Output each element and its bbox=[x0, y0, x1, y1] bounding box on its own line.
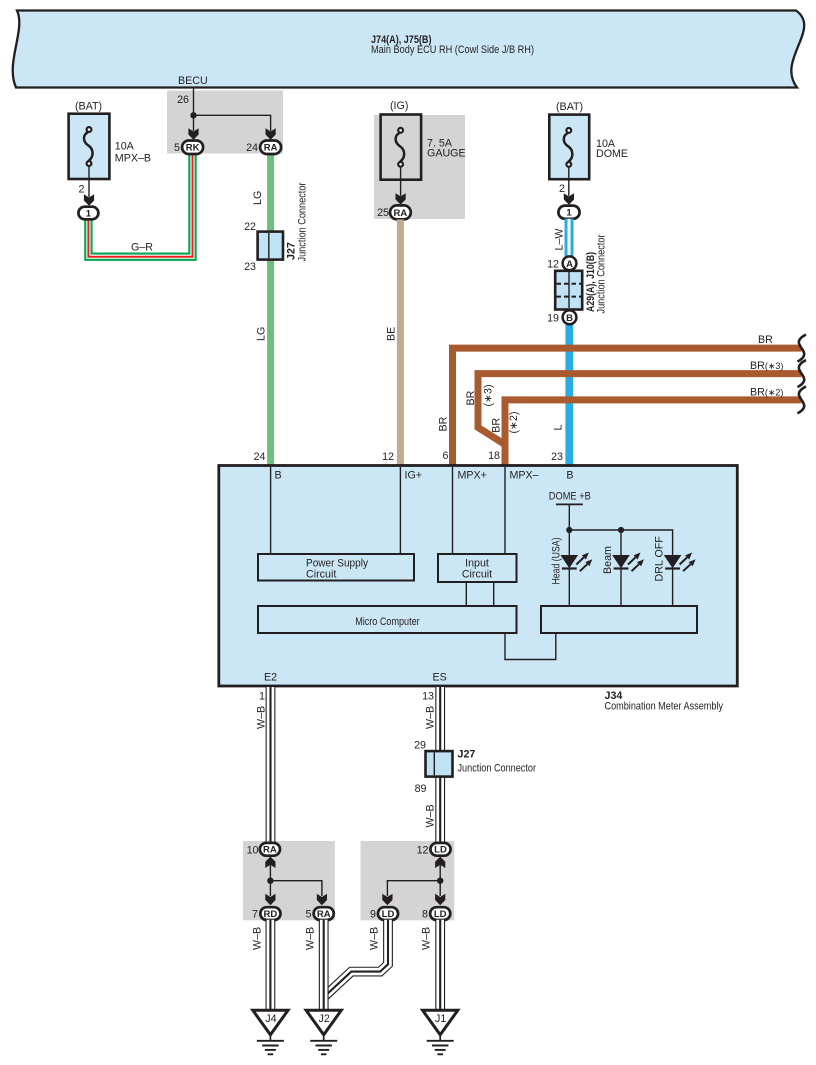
svg-text:DOME +B: DOME +B bbox=[549, 491, 591, 503]
svg-text:W–B: W–B bbox=[425, 804, 437, 827]
svg-text:W–B: W–B bbox=[425, 706, 437, 729]
svg-text:1: 1 bbox=[566, 208, 572, 219]
svg-text:J4: J4 bbox=[265, 1013, 276, 1025]
svg-text:BR: BR bbox=[438, 416, 450, 431]
svg-text:13: 13 bbox=[422, 691, 434, 703]
svg-text:5: 5 bbox=[174, 142, 180, 154]
svg-text:12: 12 bbox=[382, 451, 394, 463]
svg-text:2: 2 bbox=[559, 183, 565, 195]
svg-text:G–R: G–R bbox=[131, 242, 153, 254]
svg-text:Junction Connector: Junction Connector bbox=[458, 763, 537, 775]
svg-text:BR(∗3): BR(∗3) bbox=[750, 360, 783, 372]
svg-text:10A: 10A bbox=[115, 141, 135, 153]
svg-text:RA: RA bbox=[264, 143, 278, 154]
svg-text:BR: BR bbox=[758, 334, 773, 346]
svg-text:W–B: W–B bbox=[305, 927, 317, 950]
svg-text:GAUGE: GAUGE bbox=[427, 147, 466, 159]
svg-text:12: 12 bbox=[547, 259, 559, 271]
svg-text:24: 24 bbox=[254, 451, 266, 463]
svg-text:E2: E2 bbox=[264, 672, 277, 684]
svg-text:(IG): (IG) bbox=[390, 100, 408, 112]
svg-text:1: 1 bbox=[86, 208, 92, 219]
svg-text:RD: RD bbox=[264, 909, 278, 920]
svg-text:RA: RA bbox=[394, 208, 408, 219]
svg-text:25: 25 bbox=[377, 207, 389, 219]
svg-text:(∗2): (∗2) bbox=[508, 411, 520, 433]
svg-text:Circuit: Circuit bbox=[462, 569, 492, 581]
svg-text:Combination Meter Assembly: Combination Meter Assembly bbox=[605, 701, 724, 713]
svg-text:BR(∗2): BR(∗2) bbox=[750, 386, 783, 398]
svg-text:BR: BR bbox=[465, 390, 477, 405]
svg-text:B: B bbox=[566, 313, 573, 324]
svg-text:MPX–: MPX– bbox=[510, 470, 539, 482]
svg-text:Beam: Beam bbox=[602, 546, 614, 574]
svg-text:7: 7 bbox=[252, 909, 258, 921]
svg-text:BECU: BECU bbox=[178, 75, 208, 87]
svg-text:(BAT): (BAT) bbox=[75, 101, 102, 113]
svg-text:Junction Connector: Junction Connector bbox=[596, 234, 608, 313]
svg-text:2: 2 bbox=[79, 184, 85, 196]
svg-text:LD: LD bbox=[434, 909, 447, 920]
svg-text:5: 5 bbox=[306, 909, 312, 921]
svg-text:MPX–B: MPX–B bbox=[115, 153, 151, 165]
svg-text:12: 12 bbox=[417, 845, 429, 857]
svg-text:L: L bbox=[553, 425, 565, 431]
svg-text:(BAT): (BAT) bbox=[556, 101, 583, 113]
svg-text:Junction Connector: Junction Connector bbox=[297, 182, 309, 261]
svg-text:DRL OFF: DRL OFF bbox=[654, 536, 666, 582]
svg-text:RK: RK bbox=[186, 143, 200, 154]
svg-text:Circuit: Circuit bbox=[306, 569, 336, 581]
svg-text:A: A bbox=[566, 259, 573, 270]
svg-text:Micro Computer: Micro Computer bbox=[355, 616, 420, 628]
svg-text:6: 6 bbox=[443, 450, 449, 462]
svg-text:MPX+: MPX+ bbox=[458, 470, 487, 482]
svg-text:IG+: IG+ bbox=[405, 470, 423, 482]
svg-text:9: 9 bbox=[370, 909, 376, 921]
svg-text:19: 19 bbox=[547, 313, 559, 325]
svg-text:LD: LD bbox=[434, 845, 447, 856]
svg-text:RA: RA bbox=[263, 845, 277, 856]
svg-text:Main Body ECU RH (Cowl Side J/: Main Body ECU RH (Cowl Side J/B RH) bbox=[371, 44, 534, 56]
svg-text:10: 10 bbox=[247, 845, 259, 857]
svg-text:8: 8 bbox=[422, 909, 428, 921]
svg-text:DOME: DOME bbox=[596, 148, 628, 160]
svg-text:B: B bbox=[275, 470, 282, 482]
svg-text:23: 23 bbox=[244, 261, 256, 273]
svg-text:(∗3): (∗3) bbox=[483, 384, 495, 406]
svg-text:W–B: W–B bbox=[421, 927, 433, 950]
svg-text:29: 29 bbox=[414, 740, 426, 752]
svg-text:J2: J2 bbox=[319, 1013, 330, 1025]
svg-text:22: 22 bbox=[244, 221, 256, 233]
svg-text:L–W: L–W bbox=[554, 228, 566, 251]
svg-text:89: 89 bbox=[415, 783, 427, 795]
svg-text:BR: BR bbox=[491, 418, 503, 433]
svg-text:23: 23 bbox=[551, 451, 563, 463]
svg-text:RA: RA bbox=[317, 909, 331, 920]
svg-text:LD: LD bbox=[382, 909, 395, 920]
svg-text:W–B: W–B bbox=[256, 706, 268, 729]
svg-text:1: 1 bbox=[259, 691, 265, 703]
svg-text:26: 26 bbox=[177, 94, 189, 106]
svg-text:LG: LG bbox=[252, 191, 264, 205]
svg-text:J1: J1 bbox=[435, 1013, 446, 1025]
svg-text:BE: BE bbox=[386, 327, 398, 341]
svg-text:B: B bbox=[566, 470, 573, 482]
svg-text:W–B: W–B bbox=[252, 927, 264, 950]
svg-text:W–B: W–B bbox=[369, 927, 381, 950]
svg-text:J27: J27 bbox=[458, 749, 476, 761]
svg-text:LG: LG bbox=[256, 327, 268, 341]
svg-text:18: 18 bbox=[488, 450, 500, 462]
svg-text:ES: ES bbox=[433, 672, 447, 684]
svg-text:Head (USA): Head (USA) bbox=[551, 538, 563, 585]
svg-text:24: 24 bbox=[246, 142, 258, 154]
